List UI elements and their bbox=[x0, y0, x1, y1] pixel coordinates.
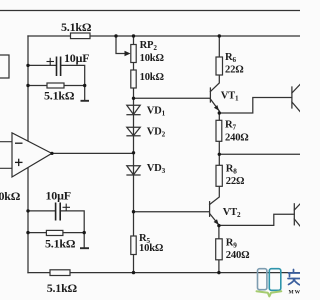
svg-text:10μF: 10μF bbox=[64, 51, 89, 65]
svg-text:10kΩ: 10kΩ bbox=[139, 243, 164, 254]
svg-text:M W: M W bbox=[289, 290, 301, 296]
svg-text:5.1kΩ: 5.1kΩ bbox=[47, 281, 78, 295]
svg-text:5.1kΩ: 5.1kΩ bbox=[61, 20, 92, 34]
svg-text:10kΩ: 10kΩ bbox=[140, 72, 165, 83]
svg-text:240Ω: 240Ω bbox=[225, 133, 249, 144]
svg-text:22Ω: 22Ω bbox=[225, 65, 244, 76]
svg-text:240Ω: 240Ω bbox=[226, 250, 250, 261]
svg-text:5.1kΩ: 5.1kΩ bbox=[45, 237, 76, 251]
svg-text:5.1kΩ: 5.1kΩ bbox=[44, 89, 75, 103]
svg-text:10kΩ: 10kΩ bbox=[140, 53, 165, 64]
svg-text:0kΩ: 0kΩ bbox=[0, 189, 21, 203]
svg-text:22Ω: 22Ω bbox=[226, 176, 245, 187]
svg-text:10μF: 10μF bbox=[46, 189, 71, 203]
